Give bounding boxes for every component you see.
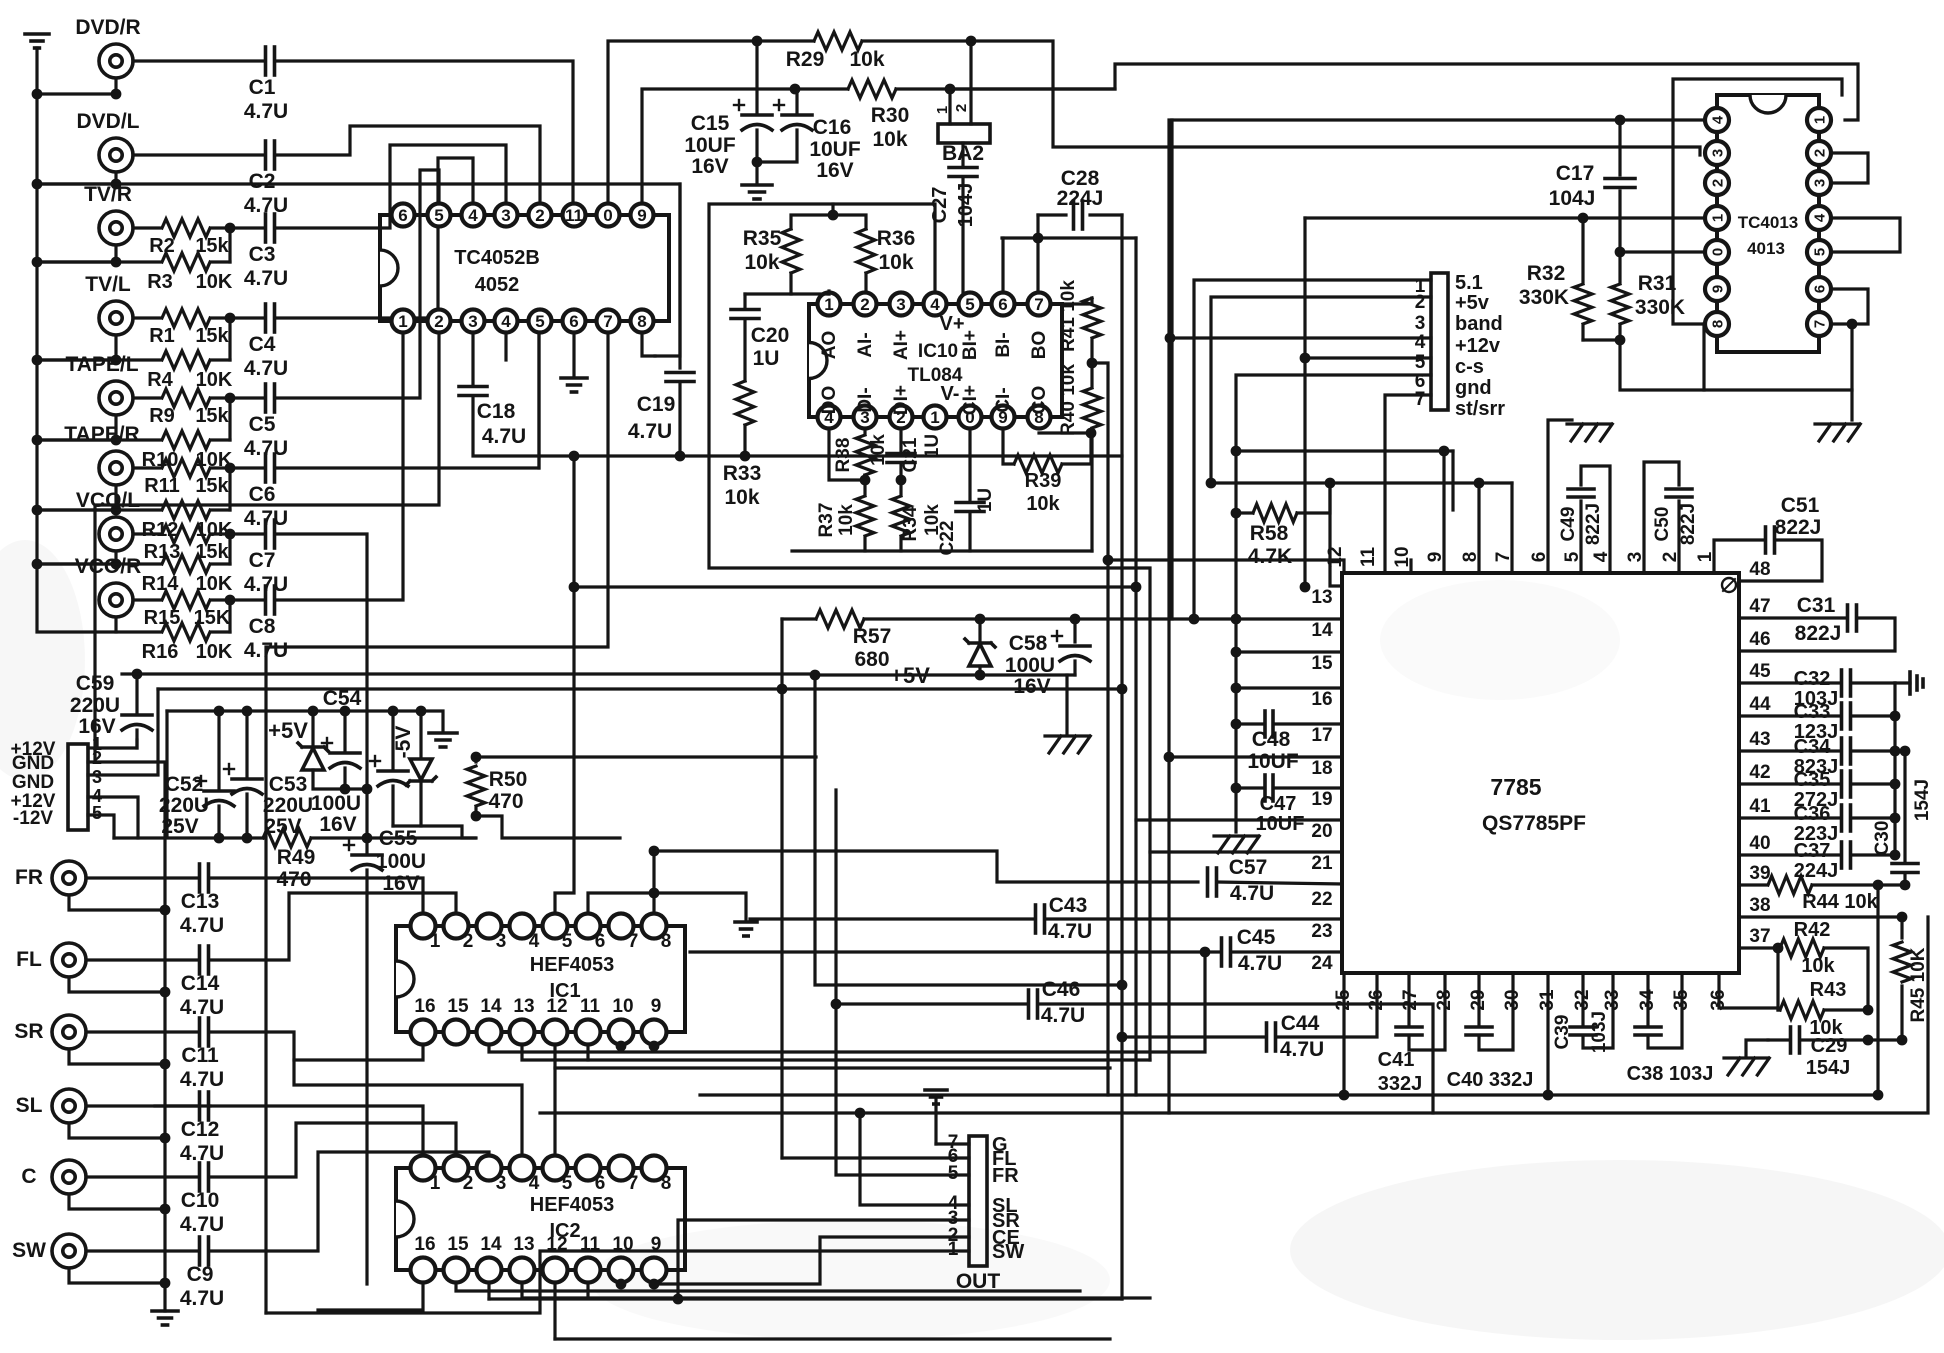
TC4052 bottom pin 1 <box>392 310 415 333</box>
svg-text:7785: 7785 <box>1490 774 1541 800</box>
svg-text:gnd: gnd <box>1455 377 1492 399</box>
capacitor C39 <box>1552 973 1613 1053</box>
svg-text:100U: 100U <box>376 850 426 873</box>
svg-text:4: 4 <box>1709 115 1726 124</box>
wire OUT p2 <box>654 1237 969 1284</box>
ground C15/C16 <box>742 162 772 199</box>
wire pin9b stub <box>1451 451 1454 510</box>
capacitor C57 <box>1208 856 1343 905</box>
resistor R39 <box>1003 430 1091 515</box>
TC4052 bottom pin 7 <box>597 310 620 333</box>
RCA jack FL <box>16 943 86 977</box>
wire IC2 pin5 riser <box>553 1068 556 1154</box>
wire conn p3 <box>1170 336 1431 339</box>
capacitor C41 <box>1378 973 1445 1095</box>
wire IC2 p14 stub2 <box>487 1284 490 1299</box>
wire left ground bus <box>37 48 160 632</box>
wire C10 out <box>210 1123 456 1177</box>
wire bus y1113 <box>540 917 1928 1113</box>
TC4013 left pin 9 <box>1705 277 1729 301</box>
wire 4013 r6 jog <box>1832 289 1868 324</box>
svg-text:IC2: IC2 <box>549 1220 580 1242</box>
svg-text:40: 40 <box>1749 833 1770 854</box>
TC4013 left pin 8 <box>1705 312 1729 336</box>
svg-text:19: 19 <box>1311 789 1332 810</box>
wire rail y836b <box>311 836 475 839</box>
resistor R45 <box>1893 917 1929 1040</box>
svg-text:C46: C46 <box>1042 978 1081 1001</box>
svg-text:TV/L: TV/L <box>85 273 131 296</box>
wire 4052 pin4 to R4 rail <box>504 334 507 360</box>
svg-text:R30: R30 <box>871 104 910 127</box>
svg-text:6: 6 <box>595 1173 606 1194</box>
svg-text:C38 103J: C38 103J <box>1627 1063 1714 1085</box>
svg-text:16: 16 <box>1311 689 1332 710</box>
svg-text:10UF: 10UF <box>809 138 861 161</box>
resistor R44 <box>1739 876 1905 913</box>
TC4052 top pin 5 <box>428 204 451 227</box>
wire TL084 pin6 up <box>1001 238 1004 291</box>
wire IC1 p14 down <box>489 952 1205 1052</box>
svg-text:10K: 10K <box>196 369 233 391</box>
svg-text:4.7U: 4.7U <box>244 100 288 123</box>
svg-text:C53: C53 <box>269 773 308 796</box>
svg-text:R49: R49 <box>277 846 316 869</box>
svg-text:8: 8 <box>637 312 646 331</box>
svg-text:2: 2 <box>1415 292 1426 313</box>
svg-text:220U: 220U <box>159 794 209 817</box>
TC4013 left pin 3 <box>1705 141 1729 165</box>
capacitor C11 <box>86 1018 224 1091</box>
wire 4052 pin8 stub <box>642 334 655 356</box>
svg-text:10UF: 10UF <box>1247 750 1299 773</box>
wire R57 left drop <box>780 619 783 1158</box>
resistor R57 <box>782 610 1342 671</box>
svg-text:154J: 154J <box>1806 1057 1851 1079</box>
resistor R38 <box>833 430 889 475</box>
resistor R1 <box>133 309 230 347</box>
svg-text:C49: C49 <box>1558 507 1579 542</box>
svg-text:44: 44 <box>1749 694 1771 715</box>
svg-text:11: 11 <box>565 206 583 225</box>
svg-text:4: 4 <box>501 312 511 331</box>
svg-text:CO: CO <box>1029 386 1050 415</box>
wire pwr pin4 <box>88 797 138 838</box>
svg-text:17: 17 <box>1311 725 1332 746</box>
ground 4013 <box>1815 390 1860 441</box>
ground C29 <box>1724 1040 1769 1075</box>
svg-text:10K: 10K <box>196 271 233 293</box>
svg-text:st/srr: st/srr <box>1455 398 1505 420</box>
svg-text:9: 9 <box>1709 285 1726 293</box>
svg-text:DVD/L: DVD/L <box>77 110 140 133</box>
capacitor C14 <box>86 946 224 1019</box>
svg-text:C32: C32 <box>1794 668 1831 690</box>
svg-text:14: 14 <box>480 996 502 1017</box>
svg-text:48: 48 <box>1749 559 1770 580</box>
wire v1878 <box>1876 885 1879 1095</box>
svg-text:3: 3 <box>92 767 102 787</box>
svg-text:8: 8 <box>661 931 672 952</box>
svg-text:AI-: AI- <box>855 332 876 357</box>
RCA jack SR <box>14 1015 86 1049</box>
svg-text:4.7U: 4.7U <box>482 425 526 448</box>
capacitor C27 <box>929 143 977 304</box>
wire IC1 p6 riser <box>588 893 746 920</box>
capacitor -5V cap <box>370 711 415 826</box>
capacitor C20 <box>731 294 789 381</box>
svg-text:R3: R3 <box>147 271 173 293</box>
svg-text:R45 10K: R45 10K <box>1908 947 1929 1022</box>
zener +5V <box>268 711 367 789</box>
svg-text:0: 0 <box>1709 248 1726 256</box>
svg-text:11: 11 <box>1358 547 1379 568</box>
svg-text:C33: C33 <box>1794 701 1831 723</box>
svg-text:10k: 10k <box>744 251 779 274</box>
resistor R36 <box>857 227 915 291</box>
wire conn p6 <box>1385 395 1431 573</box>
wire 4013 bottom <box>1704 324 1852 390</box>
capacitor C50 <box>1644 462 1699 573</box>
resistor R11 <box>133 459 230 497</box>
wire SW gnd tail <box>69 1268 165 1283</box>
svg-text:16V: 16V <box>816 159 853 182</box>
connector 5.1 <box>1431 273 1448 410</box>
svg-text:R35: R35 <box>743 227 782 250</box>
svg-text:1U: 1U <box>975 488 996 512</box>
svg-text:VCO/R: VCO/R <box>75 555 142 578</box>
svg-text:C30: C30 <box>1872 821 1893 856</box>
capacitor C15 <box>684 41 772 178</box>
svg-text:16V: 16V <box>1013 675 1050 698</box>
ground v1236 <box>1214 836 1259 853</box>
wire OUT p4 <box>860 1113 969 1205</box>
svg-text:4.7U: 4.7U <box>180 1142 224 1165</box>
svg-text:8: 8 <box>661 1173 672 1194</box>
svg-text:CI+: CI+ <box>960 385 981 415</box>
capacitor C46 <box>836 978 1433 1113</box>
capacitor C32 <box>1739 668 1895 710</box>
svg-text:C36: C36 <box>1794 803 1831 825</box>
ground C58 <box>1045 675 1090 753</box>
svg-text:+12v: +12v <box>1455 335 1501 357</box>
svg-text:3: 3 <box>468 312 477 331</box>
wire +5V rail <box>815 673 1075 676</box>
capacitor C10 <box>86 1163 224 1236</box>
wire pin10 stub <box>1409 560 1412 573</box>
wire IC1 p8 up <box>652 851 655 912</box>
svg-text:R37: R37 <box>816 503 837 538</box>
resistor R50 <box>467 757 527 816</box>
svg-text:10UF: 10UF <box>684 134 736 157</box>
svg-text:R39: R39 <box>1025 470 1062 492</box>
capacitor C51 <box>1714 494 1822 581</box>
TL084 top pin 7 <box>1028 293 1051 316</box>
svg-text:332J: 332J <box>1378 1073 1423 1095</box>
wire C20 top <box>745 292 791 295</box>
TL084 bottom pin 0 <box>959 406 982 429</box>
ground top-left <box>25 34 49 48</box>
TC4052 top pin 6 <box>392 204 415 227</box>
capacitor C38 <box>1627 973 1714 1085</box>
capacitor C54 <box>311 687 362 836</box>
TC4013 right pin 3 <box>1807 171 1831 195</box>
svg-text:1: 1 <box>1811 116 1828 124</box>
svg-text:22: 22 <box>1311 889 1332 910</box>
svg-text:4: 4 <box>468 206 478 225</box>
svg-text:SR: SR <box>14 1020 43 1043</box>
TL084 top pin 5 <box>959 293 982 316</box>
wire IC2 p16 down <box>318 1284 423 1310</box>
svg-text:DI+: DI+ <box>891 385 912 415</box>
wire y451 <box>1236 449 1453 452</box>
svg-text:13: 13 <box>513 996 534 1017</box>
svg-text:C31: C31 <box>1797 594 1836 617</box>
resistor R42 <box>1739 919 1868 1010</box>
wire y851 to C57 <box>654 851 1198 882</box>
svg-text:DO: DO <box>819 386 840 415</box>
svg-text:16: 16 <box>414 996 435 1017</box>
resistor R43 <box>1778 948 1868 1039</box>
capacitor C3 <box>230 214 288 290</box>
svg-text:C20: C20 <box>751 324 790 347</box>
wire R35/R36 bridge <box>791 215 866 229</box>
wire pwr pin5 <box>88 815 114 838</box>
svg-text:1: 1 <box>430 1173 441 1194</box>
svg-text:2: 2 <box>860 295 869 314</box>
wire TL084 pin7 up <box>1036 215 1039 291</box>
capacitor C1 <box>133 47 288 123</box>
svg-text:1: 1 <box>824 295 833 314</box>
wire conn p1 <box>1194 280 1431 619</box>
svg-text:4.7U: 4.7U <box>244 267 288 290</box>
TC4013 right pin 5 <box>1807 240 1831 264</box>
svg-text:10k: 10k <box>849 48 884 71</box>
TC4013 right pin 4 <box>1807 206 1831 230</box>
svg-text:1: 1 <box>934 106 951 114</box>
svg-text:R33: R33 <box>723 462 762 485</box>
wire IC2 p11 stub <box>586 1284 589 1298</box>
RCA jack TAPE/R <box>64 423 139 485</box>
resistor R3 <box>147 253 233 293</box>
svg-text:10k: 10k <box>836 504 857 536</box>
svg-text:6: 6 <box>595 931 606 952</box>
svg-text:13: 13 <box>1311 587 1332 608</box>
wire v1305 <box>1303 218 1306 587</box>
TL084 top pin 3 <box>890 293 913 316</box>
wire pin8 stub <box>1477 483 1480 573</box>
svg-text:5: 5 <box>1811 248 1828 256</box>
svg-text:104J: 104J <box>955 183 977 228</box>
svg-text:C59: C59 <box>76 672 115 695</box>
svg-text:10k: 10k <box>878 251 913 274</box>
TC4052 bottom pin 2 <box>428 310 451 333</box>
capacitor C40 <box>1447 973 1534 1091</box>
resistor R29 <box>756 32 971 71</box>
RCA jack C <box>21 1160 86 1194</box>
TL084 top pin 6 <box>992 293 1015 316</box>
wire OUT p3 <box>678 1220 969 1299</box>
svg-text:15: 15 <box>447 996 469 1017</box>
wire pin13 drop <box>1330 483 1342 586</box>
TC4052 top pin 0 <box>597 204 620 227</box>
svg-text:C8: C8 <box>249 615 276 638</box>
wire conn p5 <box>1236 375 1431 832</box>
svg-text:C35: C35 <box>1794 769 1831 791</box>
wire IC2 p15 down <box>456 1284 1080 1291</box>
svg-text:822J: 822J <box>1775 516 1822 539</box>
svg-text:15k: 15k <box>195 235 229 257</box>
svg-text:47: 47 <box>1749 596 1770 617</box>
wire IC1 p12 down <box>555 1046 1110 1068</box>
svg-text:4.7U: 4.7U <box>628 420 672 443</box>
svg-text:6: 6 <box>569 312 578 331</box>
svg-text:TC4052B: TC4052B <box>454 247 540 269</box>
resistor R9 <box>133 389 230 427</box>
wire 4052 pin9 to R30 <box>642 89 795 202</box>
svg-text:V-: V- <box>941 383 960 405</box>
capacitor C12 <box>86 1092 224 1165</box>
svg-text:C4: C4 <box>249 333 276 356</box>
svg-text:4.7U: 4.7U <box>244 357 288 380</box>
svg-text:5: 5 <box>562 1173 573 1194</box>
svg-text:39: 39 <box>1749 863 1770 884</box>
IC HEF4053 IC1 <box>396 914 685 1045</box>
svg-text:16V: 16V <box>691 155 728 178</box>
svg-text:FR: FR <box>992 1165 1019 1187</box>
svg-text:2: 2 <box>463 931 474 952</box>
svg-text:TAPE/R: TAPE/R <box>64 423 139 446</box>
svg-text:R57: R57 <box>853 625 892 648</box>
svg-text:R43: R43 <box>1810 979 1847 1001</box>
svg-text:16V: 16V <box>319 813 356 836</box>
RCA jack DVD/R <box>75 16 140 78</box>
svg-text:4: 4 <box>1415 332 1426 353</box>
TC4052 top pin 11 <box>563 204 586 227</box>
wire 4052 pin7 down-left <box>266 334 608 1313</box>
capacitor C53 <box>224 711 313 838</box>
connector OUT <box>956 1136 1001 1293</box>
resistor R31 <box>1611 252 1685 340</box>
svg-text:11: 11 <box>580 996 601 1017</box>
capacitor C37 <box>1739 840 1895 882</box>
wire chip b36 <box>1719 973 1778 1010</box>
resistor R2 <box>133 219 230 257</box>
svg-text:10K: 10K <box>196 641 233 663</box>
svg-text:R14: R14 <box>142 573 180 595</box>
svg-text:TAPE/L: TAPE/L <box>65 353 138 376</box>
capacitor C59 <box>70 672 152 748</box>
wire C13 out <box>210 878 423 912</box>
svg-text:822J: 822J <box>1678 503 1699 545</box>
TC4052 top pin 2 <box>529 204 552 227</box>
wire R50 top rail <box>476 755 816 758</box>
wire FR gnd tail <box>69 895 165 910</box>
wire SR gnd tail <box>69 1049 165 1064</box>
resistor R49 <box>263 829 315 891</box>
wire TL084 pin4b jog <box>829 430 865 480</box>
svg-text:9: 9 <box>651 996 662 1017</box>
wire C gnd tail <box>69 1194 165 1209</box>
svg-text:C5: C5 <box>249 413 276 436</box>
svg-text:8: 8 <box>1709 320 1726 328</box>
capacitor C16 <box>757 89 861 182</box>
zener +5V b <box>890 619 995 688</box>
svg-text:6: 6 <box>998 295 1007 314</box>
svg-text:330K: 330K <box>1519 286 1569 309</box>
svg-text:0: 0 <box>603 206 612 225</box>
wire conn p2 <box>1211 297 1431 483</box>
capacitor C7 <box>230 520 288 596</box>
diode BA2 <box>934 41 990 165</box>
wire 4013 r4 jog <box>1832 218 1900 252</box>
RCA jack VCO/L <box>76 489 140 551</box>
svg-text:R13: R13 <box>144 541 181 563</box>
TC4013 left pin 0 <box>1705 240 1729 264</box>
svg-text:R41 10k: R41 10k <box>1058 280 1079 352</box>
wire R31R32 join <box>1583 340 1704 390</box>
svg-text:10k: 10k <box>724 486 759 509</box>
svg-text:C40 332J: C40 332J <box>1447 1069 1534 1091</box>
wire R50 bottom <box>476 816 620 838</box>
svg-text:15k: 15k <box>195 405 229 427</box>
svg-text:104J: 104J <box>1549 187 1596 210</box>
svg-text:4.7U: 4.7U <box>180 1068 224 1091</box>
svg-text:3: 3 <box>1709 149 1726 157</box>
svg-text:CI-: CI- <box>993 387 1014 412</box>
wire IC1 p11 stub <box>586 1046 589 1060</box>
svg-text:15k: 15k <box>195 475 229 497</box>
wire bridge tap <box>831 204 834 215</box>
svg-text:4.7U: 4.7U <box>180 996 224 1019</box>
svg-text:37: 37 <box>1749 926 1770 947</box>
svg-text:4: 4 <box>529 1173 540 1194</box>
wire rail y711 <box>167 711 443 731</box>
TC4052 bottom pin 3 <box>462 310 485 333</box>
svg-text:1U: 1U <box>753 347 780 370</box>
TC4052 top pin 3 <box>495 204 518 227</box>
connector power 5pin <box>68 744 88 830</box>
svg-text:FL: FL <box>16 948 42 971</box>
wire chip b31 <box>1546 973 1549 1095</box>
svg-text:IC10: IC10 <box>918 341 958 362</box>
svg-text:C37: C37 <box>1794 840 1831 862</box>
svg-text:10K: 10K <box>196 573 233 595</box>
wire OUT p6 <box>782 1156 969 1159</box>
svg-text:C15: C15 <box>691 112 730 135</box>
TC4013 left pin 1 <box>1705 206 1729 230</box>
svg-text:R16: R16 <box>142 641 179 663</box>
svg-text:15: 15 <box>1311 653 1333 674</box>
svg-text:10: 10 <box>1392 546 1413 567</box>
svg-text:+5v: +5v <box>1455 292 1490 314</box>
wire C6 to 4052 pin5 <box>275 336 539 468</box>
wire pin9 stub <box>1442 451 1445 573</box>
svg-text:7: 7 <box>1034 295 1043 314</box>
wire y483 <box>1211 481 1512 484</box>
wire rail y674 <box>122 672 815 675</box>
svg-text:FR: FR <box>15 866 43 889</box>
svg-text:SW: SW <box>992 1241 1024 1263</box>
svg-text:3: 3 <box>896 295 905 314</box>
svg-text:C7: C7 <box>249 549 276 572</box>
wire 4013 outer box <box>1673 79 1842 218</box>
svg-text:25V: 25V <box>161 815 198 838</box>
IC TC4052B body <box>380 215 669 321</box>
svg-text:7: 7 <box>1493 552 1514 563</box>
ground OUT <box>925 1090 947 1144</box>
capacitor C13 <box>86 864 224 937</box>
